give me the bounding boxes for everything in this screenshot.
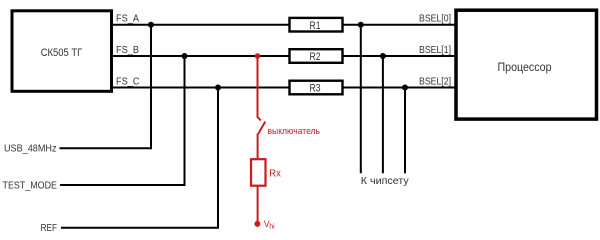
wire FS_C left segment — [112, 87, 290, 89]
svg-text:USB_48MHz: USB_48MHz — [4, 144, 57, 155]
wire TEST_MODE horizontal — [60, 184, 186, 186]
svg-text:Rx: Rx — [269, 168, 281, 180]
svg-text:R1: R1 — [310, 20, 321, 32]
node red junction on FS_B — [255, 53, 261, 59]
wire REF horizontal — [61, 227, 219, 229]
svg-text:FS_A: FS_A — [116, 13, 139, 25]
clock generator box СК505 ТГ — [12, 11, 112, 92]
svg-text:BSEL[2]: BSEL[2] — [419, 76, 451, 88]
svg-text:REF: REF — [41, 223, 58, 234]
resistor R3 — [290, 81, 343, 95]
wire FS_B right segment — [343, 55, 457, 57]
wire red vertical upper — [257, 56, 259, 117]
node junction on FS_A (chipset tap) — [358, 22, 364, 28]
wire TEST_MODE vertical — [184, 56, 186, 185]
wire USB_48MHz vertical — [150, 25, 152, 149]
svg-text:FS_B: FS_B — [116, 44, 139, 56]
wire to chipset 1 — [360, 25, 362, 174]
svg-text:R2: R2 — [310, 51, 321, 63]
svg-text:Процессор: Процессор — [498, 62, 552, 74]
svg-text:СК505 ТГ: СК505 ТГ — [41, 47, 83, 59]
wire red vertical lower — [257, 186, 259, 222]
svg-text:BSEL[0]: BSEL[0] — [419, 13, 451, 25]
wire REF vertical — [217, 88, 219, 228]
switch выключатель — [258, 113, 321, 137]
wire to chipset 3 — [404, 88, 406, 174]
wire USB_48MHz horizontal — [60, 147, 153, 149]
processor box Процессор — [456, 10, 597, 119]
svg-text:BSEL[1]: BSEL[1] — [419, 44, 451, 56]
resistor R2 — [290, 49, 343, 63]
wire FS_B left segment — [112, 55, 290, 57]
node junction on FS_B (chipset tap) — [380, 53, 386, 59]
node junction on FS_C (chipset tap) — [402, 85, 408, 91]
resistor R1 — [290, 18, 343, 32]
svg-text:К чипсету: К чипсету — [361, 176, 409, 187]
wire FS_A left segment — [112, 24, 290, 26]
node junction on FS_A (USB tap) — [148, 22, 154, 28]
svg-text:hi: hi — [269, 223, 275, 230]
svg-text:FS_C: FS_C — [116, 75, 140, 87]
wire FS_C right segment — [343, 87, 457, 89]
svg-text:выключатель: выключатель — [268, 126, 321, 137]
node junction on FS_B (TEST_MODE tap) — [182, 53, 188, 59]
wire FS_A right segment — [343, 24, 457, 26]
node junction on FS_C (REF tap) — [215, 85, 221, 91]
wire red vertical middle — [257, 134, 259, 160]
node Vhi terminal — [254, 219, 275, 230]
wire to chipset 2 — [382, 56, 384, 173]
svg-text:R3: R3 — [310, 83, 321, 95]
svg-text:TEST_MODE: TEST_MODE — [3, 180, 58, 191]
resistor Rx — [251, 159, 281, 186]
